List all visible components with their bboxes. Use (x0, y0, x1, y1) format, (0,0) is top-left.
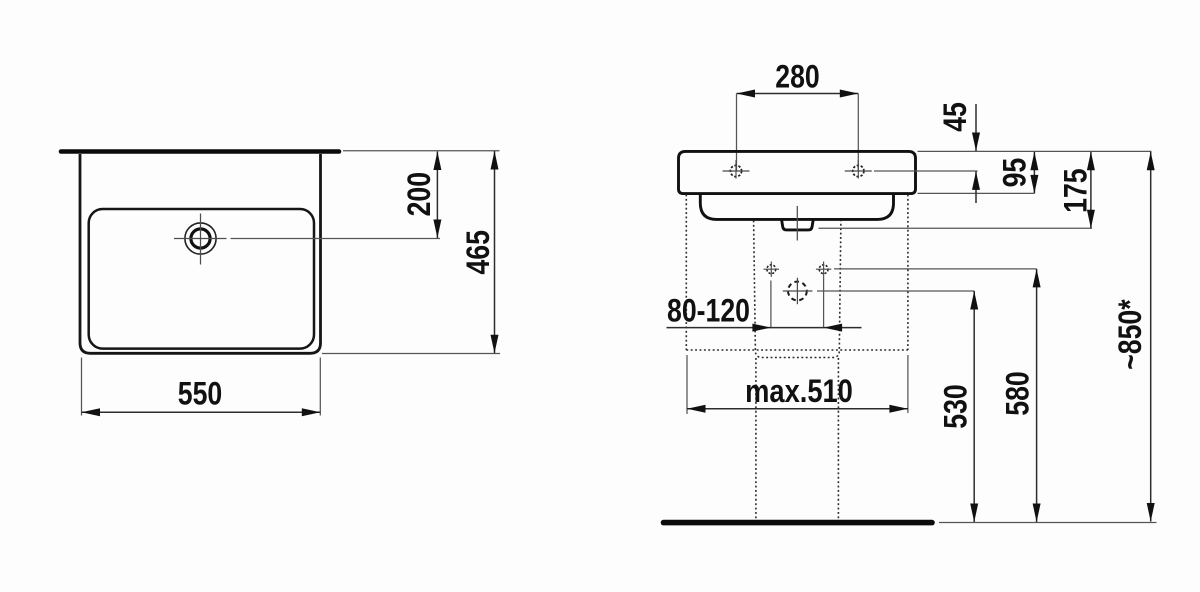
floor line (thick) (664, 520, 933, 526)
extension line max.510 right (907, 355, 909, 413)
dimension 280 arrow left (737, 90, 756, 98)
leader from right pedestal hole to 580 dim (834, 268, 1037, 270)
dimension 530 arrow up (970, 291, 978, 310)
dimension 580 line (1036, 269, 1038, 522)
hidden trap cover dashed outline (754, 221, 841, 358)
dimension ~850 line (1150, 152, 1152, 522)
floor extension line thin (939, 522, 1157, 524)
dimension 80-120 arrow left-pointing (824, 324, 843, 332)
extension line top (wall level, for 200 and 465 dims) (343, 150, 500, 152)
svg-text:95: 95 (997, 158, 1033, 188)
drain hole large circle (788, 282, 807, 301)
mounting hole left (730, 165, 741, 176)
svg-text:280: 280 (775, 59, 819, 95)
dimension 580 arrow up (1033, 269, 1041, 288)
drain trough (782, 220, 814, 230)
drain centerline (796, 206, 798, 241)
dimension ~850 arrow down (1147, 503, 1155, 522)
dimension 80-120 arrow right-pointing (752, 324, 771, 332)
leader from drain hole to 530 dim (817, 290, 974, 292)
svg-text:465: 465 (460, 230, 496, 274)
basin outer outline (80, 154, 321, 353)
dimension 95 arrow up (1030, 152, 1038, 171)
dimension 95 line (1033, 152, 1035, 194)
svg-text:80-120: 80-120 (667, 293, 750, 329)
svg-text:175: 175 (1058, 168, 1094, 212)
dimension 45 upper leg (975, 104, 977, 151)
dimension 580 arrow down (1033, 504, 1041, 523)
dimension 465 arrow up (491, 151, 499, 170)
dimension ~850 arrow up (1147, 152, 1155, 171)
dimension 550 arrow right (302, 408, 321, 416)
basin rim front outline (679, 151, 916, 193)
dimension 175 line (1090, 152, 1092, 229)
extension line 550 left (81, 358, 83, 416)
dimension 200 line (436, 152, 438, 239)
dimension 200 arrow down (433, 220, 441, 239)
dimension 200 arrow up (433, 152, 441, 171)
dimension max.510 arrow left (687, 405, 706, 413)
hidden pipe line left dashed to floor (755, 358, 757, 520)
extension line 280 left down to hole (736, 94, 738, 172)
hidden clearance box bottom dashed (686, 349, 908, 351)
extension line 550 right (319, 358, 321, 416)
dimension 280 line (737, 93, 859, 95)
dimension 550 arrow left (82, 408, 101, 416)
leader from right mounting hole (45 dim level) (874, 170, 978, 172)
dimension 465 arrow down (491, 335, 499, 354)
pedestal hole right (819, 265, 828, 274)
hidden pipe line right dashed to floor (837, 358, 839, 520)
dimension 530 arrow down (970, 504, 978, 523)
extension line bottom right (basin bottom, for 465 dim) (322, 353, 500, 355)
svg-text:max.510: max.510 (745, 374, 853, 410)
dimension 95 arrow down (1030, 175, 1038, 194)
svg-text:45: 45 (937, 102, 973, 132)
svg-text:530: 530 (938, 384, 974, 428)
hidden clearance box right dashed (907, 195, 909, 351)
dimension max.510 line (687, 408, 908, 410)
faucet hole outer circle (185, 223, 216, 254)
dimension 280 arrow right (840, 90, 859, 98)
dimension 530 line (973, 291, 975, 522)
dimension 45 lower leg (975, 171, 977, 203)
extension line basin top to far right (918, 150, 1152, 152)
extension line drain bottom to 175 dim (819, 227, 1093, 229)
faucet hole crosshair vertical (200, 214, 202, 265)
dimension 175 arrow down (1087, 210, 1095, 229)
dimension 80-120 line (667, 327, 862, 329)
svg-text:~850*: ~850* (1112, 299, 1148, 370)
extension line 280 right down to hole (857, 94, 859, 172)
svg-text:550: 550 (178, 376, 222, 412)
dimension 175 arrow up (1087, 152, 1095, 171)
faucet hole inner circle (191, 229, 210, 248)
leader line from faucet hole to 200 dimension (231, 238, 441, 240)
dimension 550 line (82, 411, 321, 413)
extension line rim bottom to 95 dim (918, 192, 1035, 194)
dimension 465 line (494, 151, 496, 353)
leader from left pedestal hole down to 80-120 dim (770, 281, 772, 328)
wall line (thick top edge) (61, 149, 339, 154)
faucet hole crosshair horizontal (174, 238, 227, 240)
hidden clearance box left dashed (685, 195, 687, 351)
dimension 45 arrow down (972, 133, 980, 152)
leader from right pedestal hole down to 80-120 dim (823, 277, 825, 328)
mounting hole right (853, 165, 864, 176)
dimension max.510 arrow right (889, 405, 908, 413)
dimension 45 arrow up (972, 171, 980, 190)
pedestal hole left (767, 265, 776, 274)
extension line max.510 left (686, 355, 688, 414)
bowl underside outline (700, 194, 893, 220)
svg-text:200: 200 (401, 172, 437, 216)
svg-text:580: 580 (1000, 371, 1036, 415)
basin inner bowl outline (89, 209, 314, 349)
